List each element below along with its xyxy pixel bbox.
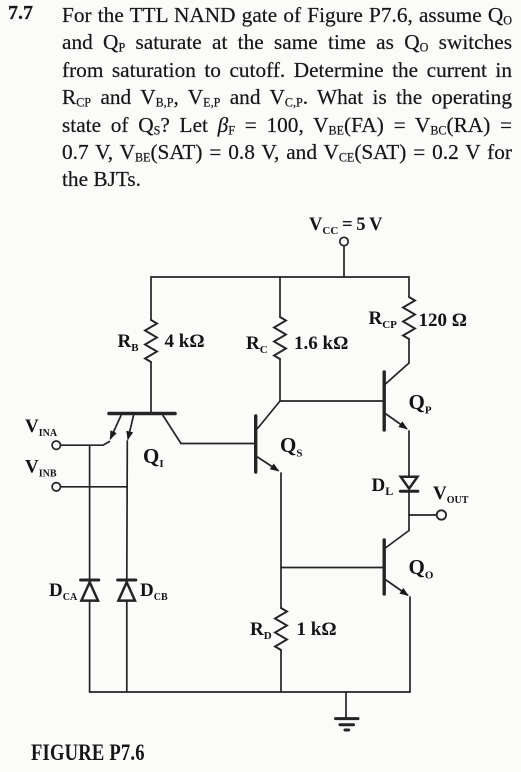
- svg-text:VINB: VINB: [25, 457, 57, 480]
- wire Qs emitter down through RD: [280, 473, 282, 608]
- resistor Rc: [274, 317, 286, 359]
- node Vout terminal: [437, 510, 446, 519]
- wire RB to Q1 base: [150, 362, 152, 412]
- wire Qo emitter down: [409, 597, 411, 692]
- wire DCA branch lower: [89, 601, 91, 692]
- svg-text:QI: QI: [143, 444, 164, 470]
- svg-text:1.6 kΩ: 1.6 kΩ: [294, 333, 348, 354]
- svg-text:DCB: DCB: [140, 580, 168, 603]
- wire Vcc stub: [343, 246, 345, 277]
- transistor Q1 emitter A: [111, 416, 122, 439]
- svg-text:QO: QO: [409, 555, 434, 582]
- wire DCA branch upper: [89, 445, 91, 579]
- svg-text:QP: QP: [409, 390, 432, 417]
- wire RCP to Qp collector: [408, 339, 410, 363]
- svg-text:RB: RB: [118, 331, 140, 354]
- svg-text:VINA: VINA: [25, 416, 58, 439]
- transistor Qs emitter: [258, 457, 279, 471]
- wire DCB branch upper: [126, 441, 129, 579]
- transistor Qp base bar: [383, 372, 386, 430]
- node Vcc terminal: [340, 237, 348, 245]
- svg-text:VOUT: VOUT: [433, 483, 469, 506]
- transistor Qo emitter: [386, 580, 408, 595]
- svg-text:VCC = 5 V: VCC = 5 V: [309, 215, 383, 237]
- wire Rc branch upper: [279, 277, 281, 317]
- transistor Q1 emitter B: [128, 416, 134, 439]
- wire RCP branch upper: [408, 277, 410, 297]
- node VINB terminal: [52, 483, 60, 491]
- svg-text:4 kΩ: 4 kΩ: [165, 331, 205, 352]
- wire Q1 collector to Qs base: [181, 443, 254, 445]
- svg-text:RD: RD: [250, 619, 272, 642]
- diode DL: [400, 477, 418, 492]
- transistor Qo base bar: [383, 540, 386, 594]
- resistor RD: [275, 608, 287, 650]
- transistor Qp emitter: [386, 414, 407, 429]
- wire top Vcc rail: [151, 276, 409, 278]
- wire Vout node down to Qo collector: [408, 515, 410, 531]
- ground symbol: [336, 719, 359, 730]
- diode DCB: [118, 580, 136, 601]
- resistor RB: [145, 320, 157, 362]
- wire Vout tap: [409, 514, 437, 516]
- wire DCB branch lower: [126, 601, 128, 692]
- transistor Qs base bar: [254, 416, 257, 472]
- wire ground stub: [345, 692, 347, 717]
- wire DL to Vout node: [408, 491, 410, 515]
- wire VINB to emitter B wire: [61, 486, 127, 488]
- svg-text:1 kΩ: 1 kΩ: [297, 619, 337, 640]
- transistor Q1 collector: [163, 416, 181, 444]
- svg-text:QS: QS: [280, 433, 302, 460]
- svg-text:DL: DL: [372, 475, 394, 498]
- wire RD to bottom rail: [280, 650, 282, 692]
- svg-text:DCA: DCA: [49, 580, 78, 603]
- wire bottom rail: [90, 691, 410, 693]
- wire Qp emitter to DL: [408, 431, 410, 476]
- transistor Qo collector: [386, 531, 409, 548]
- wire Qo base: [281, 567, 382, 569]
- svg-text:RCP: RCP: [369, 308, 398, 331]
- wire RB branch upper: [150, 277, 152, 320]
- transistor Q1 base bar: [109, 412, 175, 416]
- node VINA terminal: [52, 441, 60, 449]
- svg-text:120 Ω: 120 Ω: [419, 310, 467, 331]
- wire VINA to emitter A: [61, 442, 110, 446]
- diode DCA: [81, 580, 99, 601]
- svg-text:RC: RC: [246, 333, 268, 356]
- resistor RCP: [403, 297, 415, 339]
- wire Qs collector node to Qp base: [280, 400, 382, 402]
- transistor Qs collector: [258, 401, 281, 429]
- transistor Qp collector: [386, 363, 409, 384]
- wire Rc to Qs collector node: [279, 359, 281, 401]
